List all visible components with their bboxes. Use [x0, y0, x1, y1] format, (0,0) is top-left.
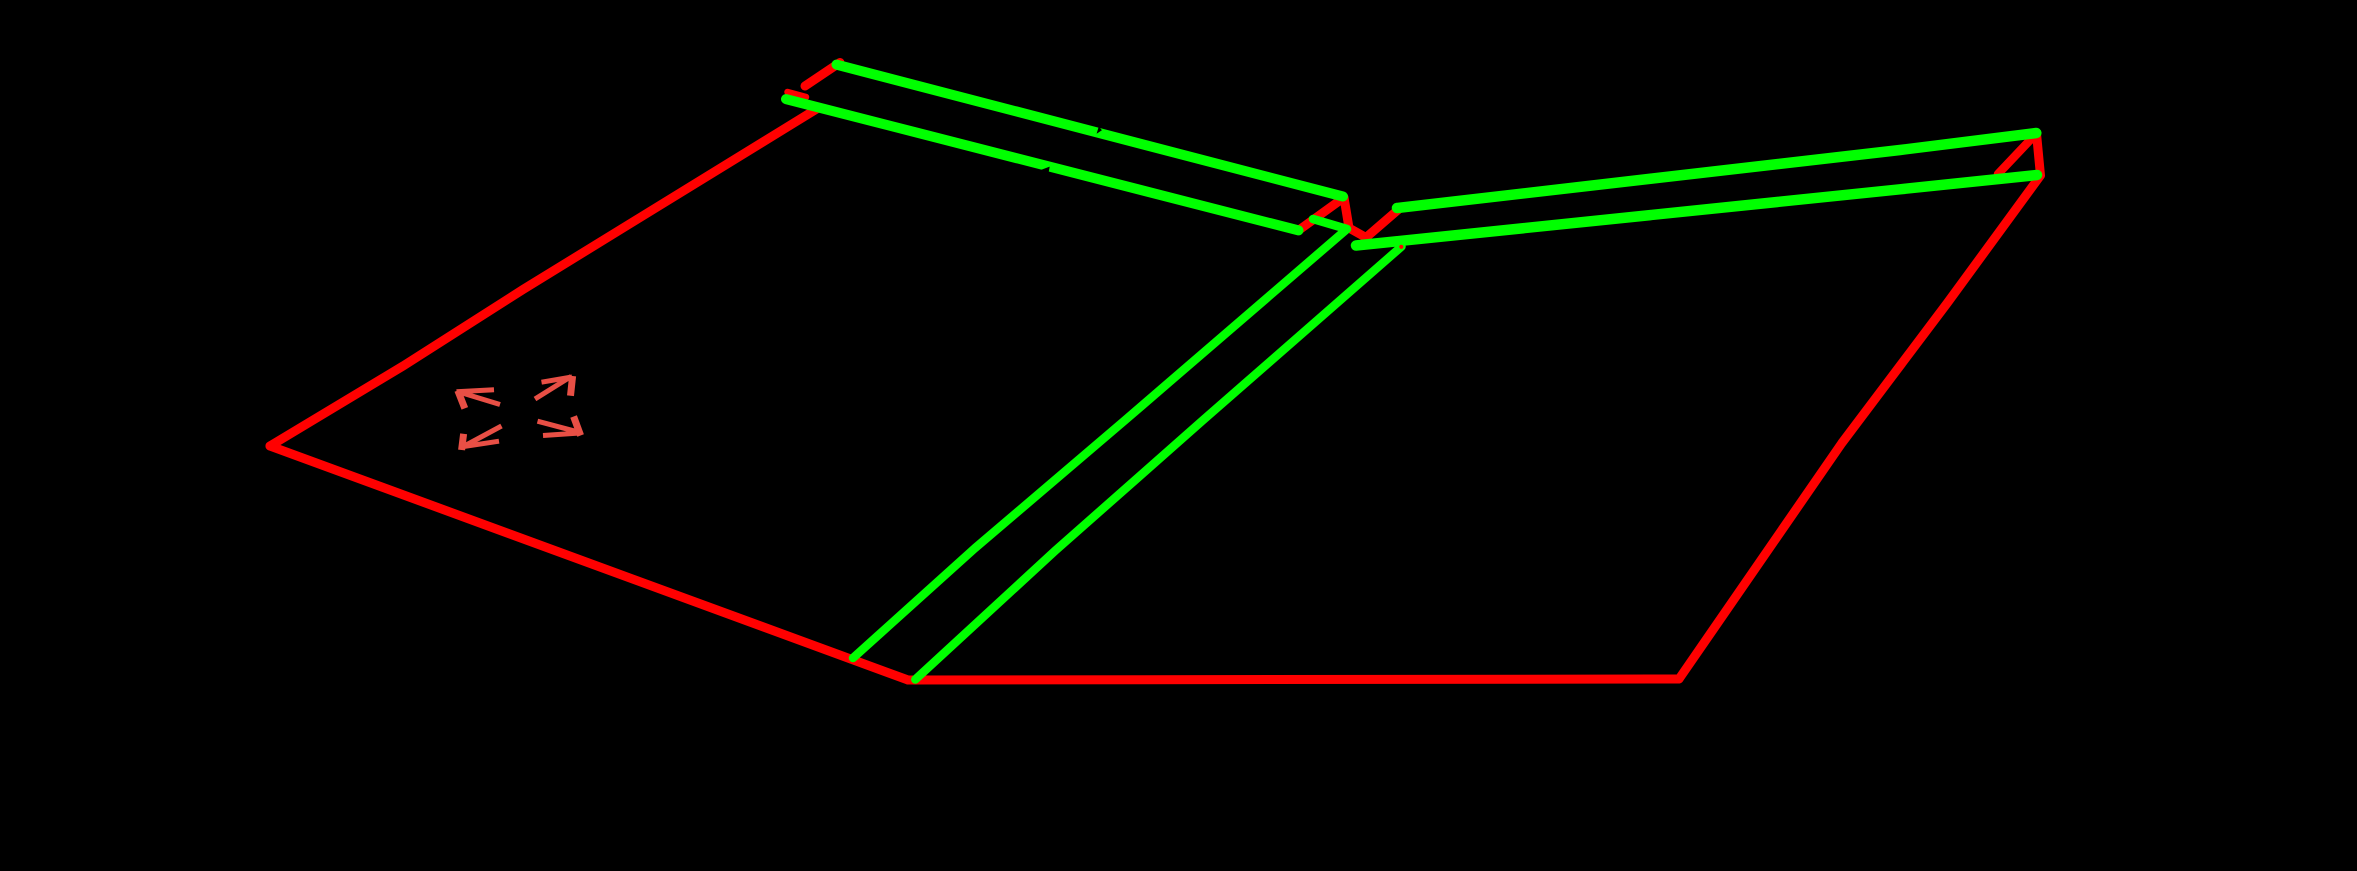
wire green right strip top line: [1397, 133, 2036, 208]
wire red top-left cap segment: [805, 63, 840, 87]
arrow up-left: [457, 390, 501, 409]
wire green left strip bottom line: [786, 99, 1299, 230]
wire red junction zigzag: [1299, 198, 1399, 238]
wire red right plane right edge and tip cap: [1679, 134, 2041, 680]
wire red bottom edge: [908, 679, 1679, 680]
node red dot at lower fork: [1399, 245, 1403, 249]
wire green crossing strip right line: [915, 247, 1401, 680]
wire red left plane lower-left edge: [270, 446, 908, 680]
wire red inner diagonal at right tip: [1998, 137, 2033, 174]
arrow down-left: [462, 426, 502, 450]
arrow up-right: [535, 376, 573, 399]
wire green elbow and crossing strip left line: [853, 219, 1347, 658]
wire green left strip top line: [837, 65, 1344, 197]
node black notch on top green line: [1097, 126, 1102, 133]
arrow down-right: [538, 417, 581, 436]
wire red left plane top edge: [270, 108, 819, 447]
wire green right strip bottom line: [1356, 175, 2037, 246]
wire red small nub above lower green start: [788, 92, 807, 97]
node black notch on lower green line: [1040, 167, 1050, 173]
